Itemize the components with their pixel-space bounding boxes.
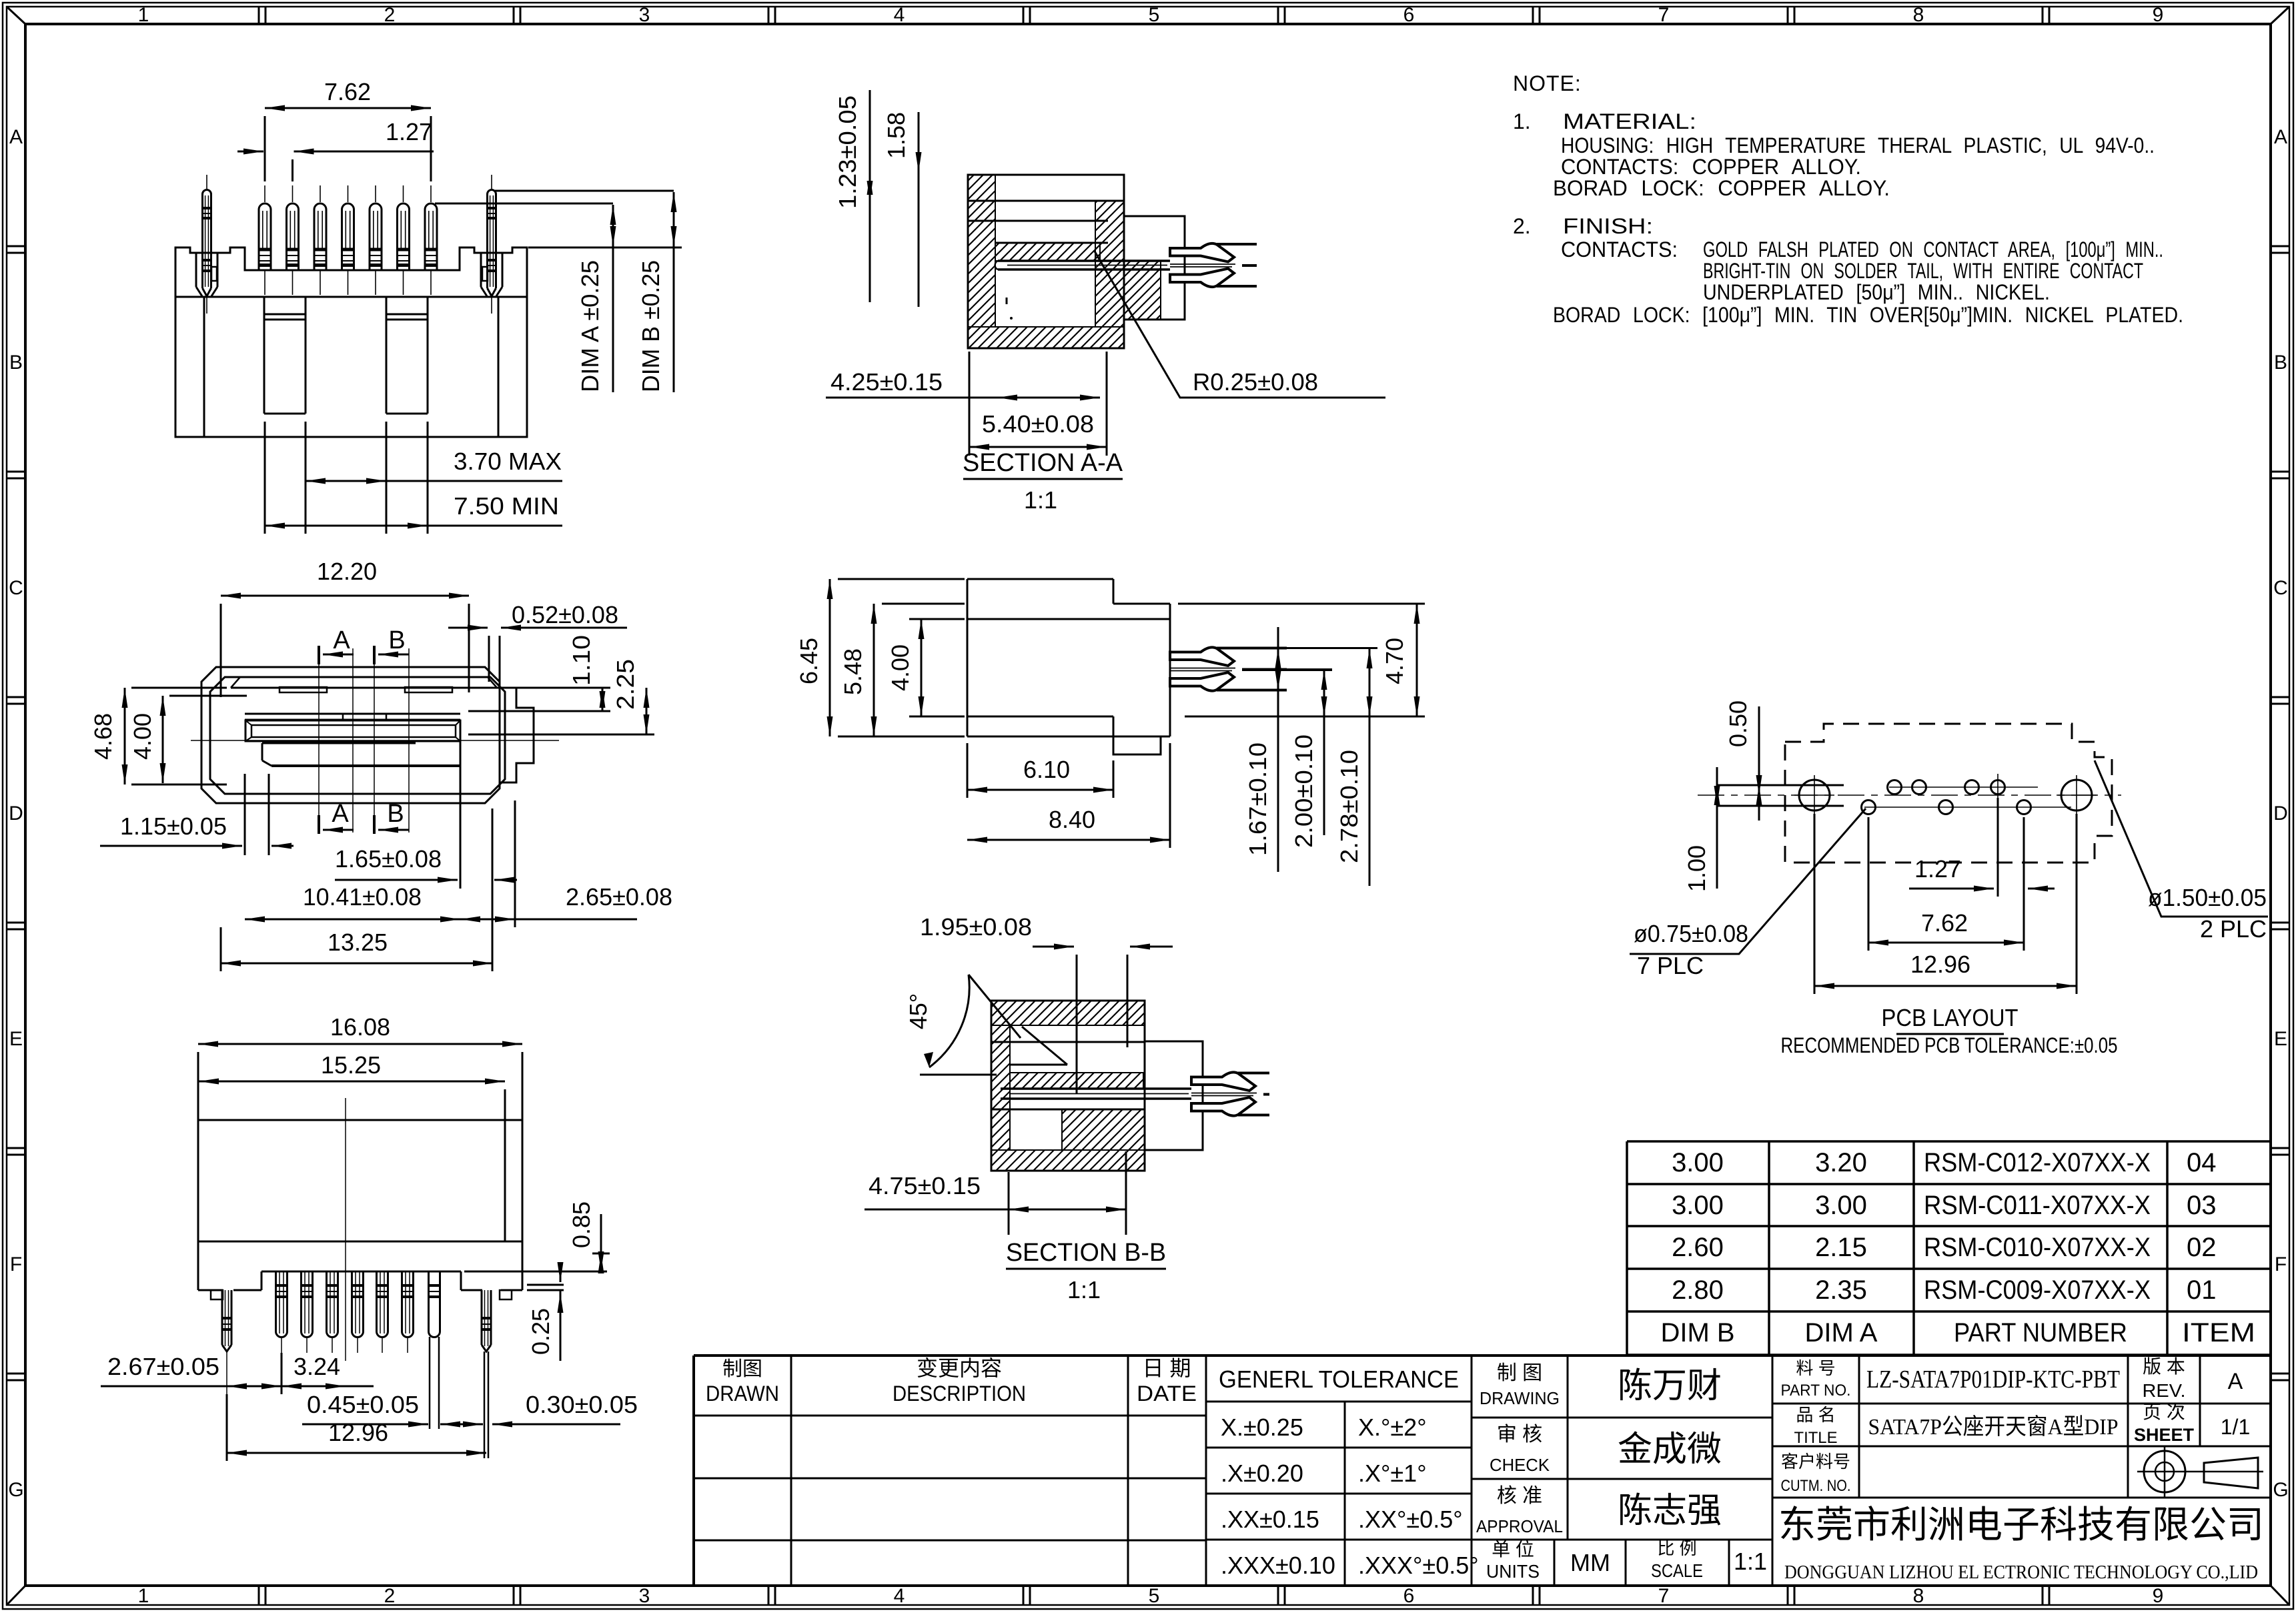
svg-text:MATERIAL:: MATERIAL: bbox=[1563, 109, 1696, 133]
svg-text:1.27: 1.27 bbox=[1914, 855, 1961, 883]
side view contact fork bbox=[1170, 647, 1234, 666]
svg-text:品 名: 品 名 bbox=[1796, 1405, 1835, 1425]
svg-text:ITEM: ITEM bbox=[2182, 1318, 2255, 1348]
svg-text:12.20: 12.20 bbox=[317, 558, 377, 585]
svg-text:单 位: 单 位 bbox=[1492, 1539, 1534, 1560]
svg-text:陈万财: 陈万财 bbox=[1618, 1367, 1722, 1406]
svg-text:3.00: 3.00 bbox=[1672, 1191, 1724, 1220]
bottom view dim 0.25 bbox=[527, 1284, 564, 1286]
svg-text:.XX°±0.5°: .XX°±0.5° bbox=[1358, 1506, 1463, 1533]
side view dim 2.78 bbox=[1369, 648, 1371, 886]
svg-text:A: A bbox=[2228, 1369, 2243, 1394]
svg-text:D: D bbox=[2273, 802, 2288, 825]
svg-text:BORAD LOCK: [100μ”] MIN. TIN O: BORAD LOCK: [100μ”] MIN. TIN OVER[50μ”]M… bbox=[1553, 303, 2183, 327]
svg-text:2.: 2. bbox=[1513, 214, 1531, 238]
svg-text:ø1.50±0.05: ø1.50±0.05 bbox=[2148, 884, 2267, 911]
svg-text:2 PLC: 2 PLC bbox=[2200, 915, 2267, 943]
pcb layout big holes bbox=[1799, 780, 1830, 811]
svg-text:X.°±2°: X.°±2° bbox=[1358, 1414, 1427, 1441]
svg-text:1.67±0.10: 1.67±0.10 bbox=[1244, 742, 1271, 856]
section B-B right block bbox=[1145, 1041, 1203, 1150]
svg-text:A: A bbox=[9, 126, 23, 148]
svg-text:CONTACTS: COPPER ALLOY.: CONTACTS: COPPER ALLOY. bbox=[1561, 155, 1861, 179]
svg-text:FINISH:: FINISH: bbox=[1563, 214, 1653, 238]
svg-text:D: D bbox=[9, 802, 23, 825]
svg-text:E: E bbox=[2274, 1028, 2287, 1050]
section B-B contact fork bbox=[1191, 1072, 1255, 1091]
svg-text:1.: 1. bbox=[1513, 109, 1531, 133]
svg-text:BORAD LOCK: COPPER ALLOY.: BORAD LOCK: COPPER ALLOY. bbox=[1553, 176, 1890, 200]
side view bottom step bbox=[1113, 736, 1161, 754]
top view L key bbox=[262, 742, 416, 744]
svg-text:8: 8 bbox=[1913, 1585, 1924, 1607]
title block row lines bbox=[694, 1415, 1206, 1417]
svg-text:6.45: 6.45 bbox=[795, 638, 822, 684]
top view center lines bbox=[191, 740, 559, 741]
svg-text:9: 9 bbox=[2153, 4, 2164, 26]
svg-text:G: G bbox=[8, 1479, 23, 1501]
svg-text:1: 1 bbox=[138, 4, 149, 26]
svg-text:核 准: 核 准 bbox=[1497, 1485, 1542, 1507]
svg-text:12.96: 12.96 bbox=[328, 1419, 388, 1446]
svg-text:5.40±0.08: 5.40±0.08 bbox=[982, 410, 1094, 438]
svg-text:日 期: 日 期 bbox=[1143, 1356, 1191, 1380]
svg-text:7 PLC: 7 PLC bbox=[1637, 952, 1704, 979]
svg-text:CHECK: CHECK bbox=[1490, 1455, 1550, 1475]
svg-text:SCALE: SCALE bbox=[1651, 1560, 1703, 1581]
svg-text:0.25: 0.25 bbox=[527, 1308, 554, 1355]
svg-text:1:1: 1:1 bbox=[1734, 1548, 1767, 1575]
svg-text:NOTE:: NOTE: bbox=[1513, 71, 1582, 95]
svg-text:制图: 制图 bbox=[722, 1358, 762, 1380]
svg-text:2.35: 2.35 bbox=[1815, 1275, 1867, 1305]
svg-text:5.48: 5.48 bbox=[839, 648, 867, 695]
front view signal pins bbox=[259, 203, 271, 271]
svg-text:RSM-C010-X07XX-X: RSM-C010-X07XX-X bbox=[1924, 1233, 2151, 1262]
top view slot band bbox=[245, 713, 460, 715]
svg-text:变更内容: 变更内容 bbox=[917, 1356, 1002, 1380]
side view contact ref lines bbox=[1287, 647, 1377, 649]
svg-text:ø0.75±0.08: ø0.75±0.08 bbox=[1634, 920, 1748, 947]
svg-text:B: B bbox=[387, 800, 404, 828]
svg-text:TITLE: TITLE bbox=[1794, 1429, 1838, 1447]
svg-text:版 本: 版 本 bbox=[2143, 1356, 2185, 1377]
svg-text:X.±0.25: X.±0.25 bbox=[1221, 1414, 1303, 1441]
section A-A contact fork bbox=[1170, 243, 1234, 262]
top view top band bbox=[231, 687, 505, 689]
svg-text:1:1: 1:1 bbox=[1067, 1276, 1101, 1303]
svg-text:SHEET: SHEET bbox=[2134, 1425, 2194, 1445]
section B-B blade area bbox=[1010, 1073, 1143, 1089]
svg-text:SECTION A-A: SECTION A-A bbox=[963, 449, 1123, 477]
pcb layout row lines bbox=[1717, 784, 1844, 786]
svg-text:9: 9 bbox=[2153, 1585, 2164, 1607]
svg-text:13.25: 13.25 bbox=[328, 929, 388, 956]
svg-text:7: 7 bbox=[1658, 4, 1670, 26]
svg-text:DATE: DATE bbox=[1137, 1382, 1197, 1406]
svg-text:02: 02 bbox=[2187, 1233, 2217, 1262]
svg-text:PART NUMBER: PART NUMBER bbox=[1954, 1318, 2127, 1348]
svg-text:4.68: 4.68 bbox=[89, 713, 117, 760]
svg-text:7: 7 bbox=[1658, 1585, 1670, 1607]
svg-text:12.96: 12.96 bbox=[1910, 951, 1970, 978]
svg-text:03: 03 bbox=[2187, 1191, 2217, 1220]
svg-text:DIM B ±0.25: DIM B ±0.25 bbox=[637, 260, 664, 392]
svg-text:RSM-C011-X07XX-X: RSM-C011-X07XX-X bbox=[1924, 1191, 2151, 1220]
svg-text:1.10: 1.10 bbox=[568, 635, 595, 686]
svg-text:BRIGHT-TIN ON SOLDER TAIL, WIT: BRIGHT-TIN ON SOLDER TAIL, WITH ENTIRE C… bbox=[1703, 259, 2143, 283]
svg-text:0.30±0.05: 0.30±0.05 bbox=[526, 1391, 638, 1418]
svg-text:2.67±0.05: 2.67±0.05 bbox=[107, 1353, 219, 1380]
svg-text:2.25: 2.25 bbox=[612, 659, 639, 710]
svg-text:15.25: 15.25 bbox=[321, 1051, 381, 1079]
svg-text:F: F bbox=[2275, 1253, 2287, 1275]
svg-text:DONGGUAN LIZHOU EL ECTRONIC TE: DONGGUAN LIZHOU EL ECTRONIC TECHNOLOGY C… bbox=[1784, 1562, 2258, 1583]
svg-text:3.20: 3.20 bbox=[1815, 1148, 1867, 1177]
svg-text:45°: 45° bbox=[905, 993, 932, 1029]
top view section labels A B top bbox=[318, 646, 320, 664]
svg-text:GOLD FALSH PLATED ON CONTACT A: GOLD FALSH PLATED ON CONTACT AREA, [100μ… bbox=[1703, 237, 2163, 261]
svg-text:7.62: 7.62 bbox=[324, 78, 371, 105]
svg-text:料 号: 料 号 bbox=[1796, 1358, 1835, 1378]
bottom view long pin 7 bbox=[429, 1271, 440, 1337]
svg-text:DIM A: DIM A bbox=[1805, 1318, 1878, 1348]
svg-text:2: 2 bbox=[384, 1585, 396, 1607]
svg-text:A: A bbox=[2274, 126, 2287, 148]
svg-text:CONTACTS:: CONTACTS: bbox=[1561, 237, 1678, 261]
section A-A contact blade bbox=[998, 259, 1170, 262]
svg-text:0.45±0.05: 0.45±0.05 bbox=[307, 1391, 419, 1418]
svg-text:DRAWING: DRAWING bbox=[1480, 1388, 1560, 1408]
svg-text:.X±0.20: .X±0.20 bbox=[1221, 1460, 1303, 1487]
top view vent slots bbox=[279, 687, 327, 692]
title block grid bbox=[694, 1354, 2271, 1357]
svg-text:客户料号: 客户料号 bbox=[1781, 1452, 1850, 1472]
svg-text:1.65±0.08: 1.65±0.08 bbox=[335, 845, 442, 873]
svg-text:2.65±0.08: 2.65±0.08 bbox=[566, 883, 672, 911]
svg-text:1.15±0.05: 1.15±0.05 bbox=[120, 813, 227, 840]
svg-text:0.85: 0.85 bbox=[568, 1201, 595, 1248]
svg-text:C: C bbox=[2273, 577, 2288, 599]
svg-text:东莞市利洲电子科技有限公司: 东莞市利洲电子科技有限公司 bbox=[1778, 1505, 2264, 1546]
svg-text:2.15: 2.15 bbox=[1815, 1233, 1867, 1262]
svg-text:6.10: 6.10 bbox=[1023, 756, 1070, 783]
bottom view dim 0.85 bbox=[464, 1271, 607, 1273]
svg-text:1.23±0.05: 1.23±0.05 bbox=[834, 95, 861, 209]
svg-text:3: 3 bbox=[639, 4, 650, 26]
svg-text:1:1: 1:1 bbox=[1024, 486, 1057, 514]
svg-text:PCB LAYOUT: PCB LAYOUT bbox=[1882, 1004, 2019, 1031]
svg-text:2.78±0.10: 2.78±0.10 bbox=[1335, 750, 1363, 863]
svg-text:F: F bbox=[10, 1253, 22, 1275]
svg-text:16.08: 16.08 bbox=[330, 1013, 390, 1041]
svg-text:6: 6 bbox=[1403, 4, 1415, 26]
svg-text:RSM-C012-X07XX-X: RSM-C012-X07XX-X bbox=[1924, 1148, 2151, 1177]
svg-text:3.70 MAX: 3.70 MAX bbox=[454, 448, 562, 475]
svg-text:1.00: 1.00 bbox=[1683, 845, 1710, 892]
svg-text:3.00: 3.00 bbox=[1672, 1148, 1724, 1177]
svg-text:SATA7P公座开天窗A型DIP: SATA7P公座开天窗A型DIP bbox=[1868, 1414, 2119, 1440]
svg-text:RECOMMENDED PCB TOLERANCE:±0: RECOMMENDED PCB TOLERANCE:±0.05 bbox=[1781, 1033, 2118, 1057]
svg-text:4.25±0.15: 4.25±0.15 bbox=[830, 368, 943, 396]
side view dim 1.67 bbox=[1277, 627, 1279, 872]
svg-text:04: 04 bbox=[2187, 1148, 2217, 1177]
svg-text:R0.25±0.08: R0.25±0.08 bbox=[1193, 368, 1318, 396]
svg-text:5: 5 bbox=[1149, 1585, 1160, 1607]
svg-text:DIM A ±0.25: DIM A ±0.25 bbox=[576, 260, 604, 392]
svg-text:GENERL TOLERANCE: GENERL TOLERANCE bbox=[1219, 1366, 1459, 1393]
parts table grid bbox=[1627, 1140, 2271, 1143]
svg-text:B: B bbox=[388, 626, 405, 654]
pcb layout dashed outline bbox=[1785, 724, 2112, 863]
svg-text:1.58: 1.58 bbox=[883, 112, 910, 159]
front view inner walls bbox=[203, 297, 205, 437]
section A-A body bbox=[968, 175, 1124, 348]
bottom view signal pins bbox=[276, 1271, 288, 1337]
svg-text:SECTION B-B: SECTION B-B bbox=[1006, 1239, 1166, 1267]
svg-text:REV.: REV. bbox=[2143, 1380, 2186, 1401]
svg-text:UNDERPLATED [50μ”] MIN.. NICK: UNDERPLATED [50μ”] MIN.. NICKEL. bbox=[1703, 280, 2050, 304]
svg-text:MM: MM bbox=[1570, 1549, 1610, 1576]
svg-text:1: 1 bbox=[138, 1585, 149, 1607]
svg-text:PART NO.: PART NO. bbox=[1781, 1382, 1851, 1400]
svg-text:制 图: 制 图 bbox=[1497, 1362, 1542, 1384]
pcb layout small holes bbox=[1888, 780, 1902, 794]
svg-text:0.50: 0.50 bbox=[1724, 700, 1752, 747]
svg-text:比 例: 比 例 bbox=[1657, 1538, 1696, 1558]
svg-text:8: 8 bbox=[1913, 4, 1924, 26]
svg-text:LZ-SATA7P01DIP-KTC-PBT: LZ-SATA7P01DIP-KTC-PBT bbox=[1866, 1366, 2120, 1394]
svg-text:B: B bbox=[9, 352, 23, 374]
top view section labels A B bottom bbox=[318, 815, 320, 834]
top view mating slot bbox=[245, 720, 460, 741]
svg-text:4.75±0.15: 4.75±0.15 bbox=[869, 1172, 981, 1199]
svg-text:页 次: 页 次 bbox=[2143, 1402, 2185, 1422]
svg-text:.X°±1°: .X°±1° bbox=[1358, 1460, 1427, 1487]
svg-text:2.80: 2.80 bbox=[1672, 1275, 1724, 1305]
svg-text:4.70: 4.70 bbox=[1381, 638, 1408, 684]
section B-B body bbox=[991, 1001, 1145, 1171]
svg-text:3.00: 3.00 bbox=[1815, 1191, 1867, 1220]
svg-text:1.27: 1.27 bbox=[386, 118, 432, 145]
front view dim DIM A bbox=[435, 203, 613, 205]
projection symbol bbox=[2144, 1451, 2185, 1492]
section A-A right block bbox=[1124, 216, 1185, 320]
svg-text:6: 6 bbox=[1403, 1585, 1415, 1607]
front view board locks bbox=[195, 253, 197, 287]
svg-text:4: 4 bbox=[894, 1585, 905, 1607]
svg-text:4.00: 4.00 bbox=[129, 713, 156, 760]
svg-text:2.60: 2.60 bbox=[1672, 1233, 1724, 1262]
svg-text:.XX±0.15: .XX±0.15 bbox=[1221, 1506, 1319, 1533]
svg-text:A: A bbox=[333, 626, 350, 654]
svg-text:E: E bbox=[9, 1028, 23, 1050]
svg-text:DRAWN: DRAWN bbox=[706, 1382, 779, 1406]
svg-text:G: G bbox=[2273, 1479, 2288, 1501]
svg-text:2: 2 bbox=[384, 4, 396, 26]
svg-text:1.95±0.08: 1.95±0.08 bbox=[920, 913, 1032, 941]
top view outer outline bbox=[201, 667, 500, 803]
svg-text:APPROVAL: APPROVAL bbox=[1476, 1516, 1563, 1536]
svg-text:B: B bbox=[2274, 352, 2287, 374]
svg-text:4.00: 4.00 bbox=[887, 644, 914, 691]
svg-text:UNITS: UNITS bbox=[1486, 1561, 1540, 1582]
svg-text:CUTM. NO.: CUTM. NO. bbox=[1781, 1477, 1851, 1495]
svg-text:01: 01 bbox=[2187, 1275, 2217, 1305]
svg-text:10.41±0.08: 10.41±0.08 bbox=[303, 883, 422, 911]
svg-text:7.50 MIN: 7.50 MIN bbox=[454, 492, 559, 520]
pcb layout centerline bbox=[1698, 794, 2121, 796]
front view dim 3.70 MAX bbox=[264, 422, 266, 534]
svg-text:8.40: 8.40 bbox=[1049, 806, 1095, 833]
side view dim 2.00 bbox=[1323, 670, 1325, 835]
svg-text:陈志强: 陈志强 bbox=[1618, 1492, 1722, 1530]
front view dim DIM B bbox=[673, 192, 675, 246]
svg-text:金成微: 金成微 bbox=[1618, 1430, 1722, 1469]
svg-text:审 核: 审 核 bbox=[1497, 1424, 1542, 1446]
svg-text:A: A bbox=[332, 800, 349, 828]
svg-text:7.62: 7.62 bbox=[1921, 909, 1968, 937]
side view body bbox=[967, 578, 1113, 580]
svg-text:RSM-C009-X07XX-X: RSM-C009-X07XX-X bbox=[1924, 1275, 2151, 1305]
svg-text:0.52±0.08: 0.52±0.08 bbox=[512, 601, 618, 628]
svg-text:HOUSING: HIGH TEMPERATURE THER: HOUSING: HIGH TEMPERATURE THERAL PLASTIC… bbox=[1561, 133, 2155, 157]
svg-text:3.24: 3.24 bbox=[294, 1353, 340, 1380]
bottom view board locks bbox=[221, 1290, 223, 1345]
svg-text:5: 5 bbox=[1149, 4, 1160, 26]
section A-A leaders left bbox=[878, 174, 968, 175]
svg-text:.XXX±0.10: .XXX±0.10 bbox=[1221, 1552, 1335, 1579]
svg-text:1/1: 1/1 bbox=[2221, 1415, 2250, 1439]
section B-B inner lines bbox=[1005, 1025, 1145, 1026]
svg-text:2.00±0.10: 2.00±0.10 bbox=[1290, 734, 1317, 848]
front view tongues bbox=[263, 297, 265, 414]
svg-text:DIM B: DIM B bbox=[1660, 1318, 1734, 1348]
svg-text:4: 4 bbox=[894, 4, 905, 26]
svg-text:3: 3 bbox=[639, 1585, 650, 1607]
bottom view base profile bbox=[197, 1241, 199, 1290]
svg-text:C: C bbox=[9, 577, 23, 599]
svg-text:DESCRIPTION: DESCRIPTION bbox=[893, 1382, 1026, 1406]
top view right steps bbox=[500, 688, 534, 782]
svg-text:.XXX°±0.5°: .XXX°±0.5° bbox=[1358, 1552, 1479, 1579]
bottom view body bbox=[198, 1120, 522, 1241]
front view housing outline bbox=[175, 247, 527, 437]
